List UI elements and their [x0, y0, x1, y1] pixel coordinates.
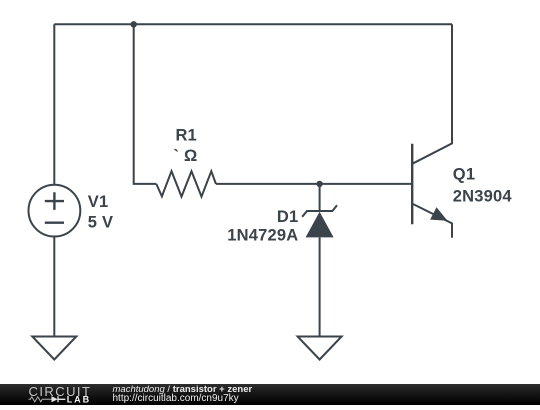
wire D1 anode to ground — [319, 237, 321, 336]
V1 plus sign — [45, 192, 64, 210]
svg-text:1N4729A: 1N4729A — [227, 227, 298, 245]
transistor Q1 body bar — [411, 144, 413, 224]
node B junction dot — [316, 181, 322, 187]
svg-text:D1: D1 — [277, 208, 299, 226]
logo mini schematic: zigzag and diode — [29, 397, 52, 402]
svg-text:V1: V1 — [88, 193, 109, 211]
footer caption text — [113, 385, 253, 404]
svg-text:LAB: LAB — [67, 394, 92, 404]
wire left rail (top wire to V1 plus terminal) — [53, 24, 55, 184]
transistor Q1 emitter slant and terminal stub — [412, 204, 452, 238]
wire base: R1 right lead to Q1 base — [216, 183, 412, 185]
voltage source V1 circle — [29, 185, 81, 237]
zener diode D1 cathode bar with bent ends — [302, 205, 337, 217]
svg-text:` Ω: ` Ω — [174, 147, 198, 165]
V1 minus sign — [45, 221, 64, 223]
zener diode D1 anode triangle — [306, 212, 334, 238]
resistor R1 zigzag — [156, 171, 216, 196]
wire V1 minus terminal to ground — [53, 237, 55, 337]
svg-text:R1: R1 — [175, 127, 197, 145]
node A junction dot — [131, 21, 137, 27]
wire node B down to D1 cathode — [319, 184, 321, 211]
footer bar — [0, 384, 540, 405]
transistor Q1 emitter arrowhead — [430, 207, 447, 221]
CircuitLab logo — [28, 384, 98, 410]
svg-text:2N3904: 2N3904 — [453, 187, 513, 205]
wire node A down to R1 left lead — [134, 24, 157, 184]
wire top rail — [54, 23, 452, 25]
svg-text:5 V: 5 V — [88, 214, 113, 232]
ground symbol under D1 — [298, 337, 342, 360]
svg-text:Q1: Q1 — [453, 166, 475, 184]
transistor Q1 collector slant and wire up to top rail — [412, 24, 452, 164]
ground symbol under V1 — [32, 337, 76, 360]
